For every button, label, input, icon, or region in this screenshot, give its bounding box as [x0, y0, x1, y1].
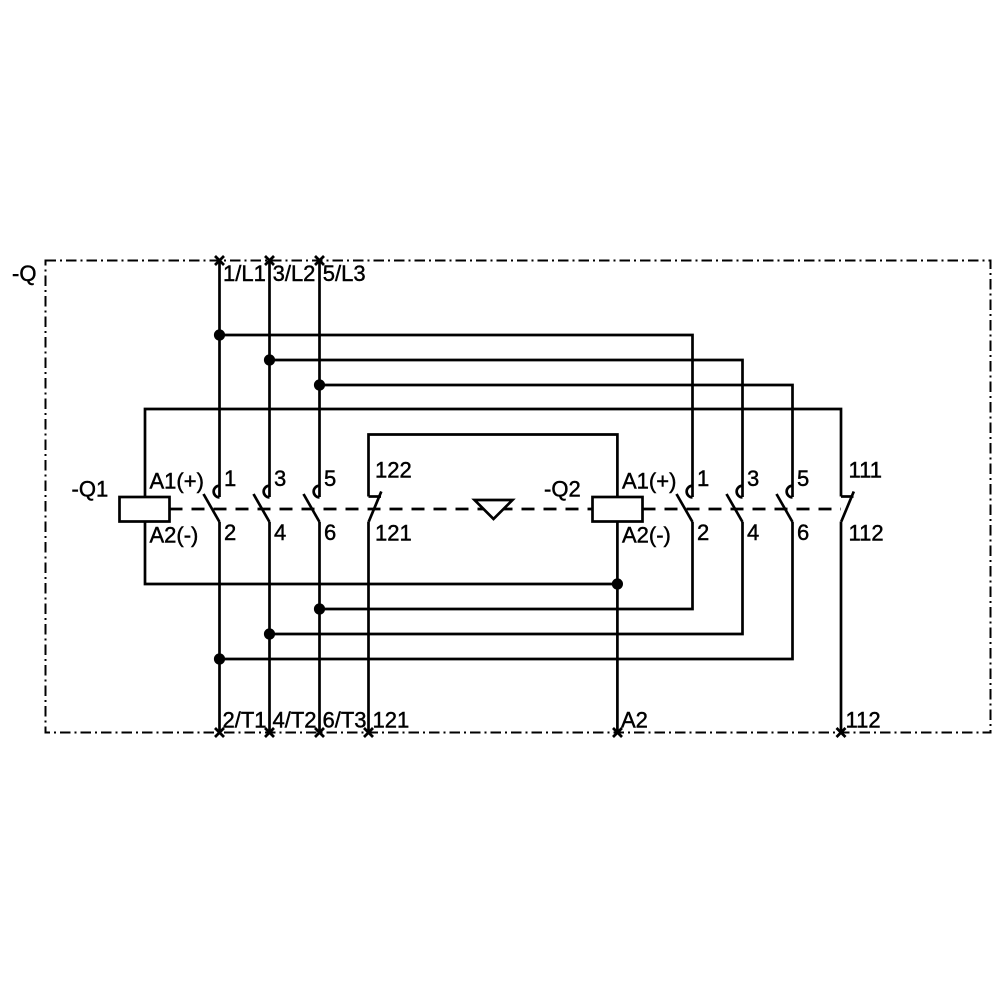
wire L2 drop to Q1 contact 3	[268, 261, 271, 498]
Q1 auxiliary NC interlock contact 122-121	[369, 492, 382, 522]
wire T3 crossover to Q2 contact 2	[320, 522, 693, 609]
svg-text:A2(-): A2(-)	[150, 523, 199, 548]
junction node T3	[314, 603, 325, 614]
wire L1 branch to Q2 contact 1	[220, 335, 693, 497]
contactor coil Q2	[593, 497, 643, 522]
svg-text:5/L3: 5/L3	[323, 261, 366, 286]
junction node A2	[612, 578, 623, 589]
terminal mark 4/T2	[265, 728, 274, 737]
terminal mark 6/T3	[315, 728, 324, 737]
svg-text:4/T2: 4/T2	[273, 708, 317, 733]
wire Q1 contact 6 to terminal 6/T3	[318, 522, 321, 733]
wire Q2 coil A2 to terminal A2	[616, 522, 619, 733]
enclosure boundary -Q (dash-dot frame)	[46, 261, 991, 733]
svg-text:121: 121	[373, 708, 410, 733]
svg-text:6/T3: 6/T3	[323, 708, 367, 733]
mechanical linkage line of Q1	[170, 508, 593, 511]
wire Q1 coil A2 to node A2	[145, 522, 617, 585]
wire T1 crossover to Q2 contact 6	[220, 522, 793, 659]
terminal mark 2/T1	[215, 728, 224, 737]
wire L1 drop to Q1 contact 1	[218, 261, 221, 498]
Q1 main contact 3-4	[254, 486, 270, 522]
wire Q1 contact 4 to terminal 4/T2	[268, 522, 271, 733]
svg-text:A1(+): A1(+)	[622, 469, 676, 494]
svg-text:A2(-): A2(-)	[622, 523, 671, 548]
svg-text:1/L1: 1/L1	[223, 261, 266, 286]
svg-text:112: 112	[849, 521, 884, 546]
svg-text:2: 2	[224, 520, 236, 545]
junction node L1	[214, 329, 225, 340]
svg-text:122: 122	[375, 458, 412, 483]
wire Q1 contact 2 to terminal 2/T1	[218, 522, 221, 733]
svg-text:-Q2: -Q2	[544, 477, 581, 502]
wire L3 branch to Q2 contact 5	[320, 385, 793, 497]
contactor coil Q1	[120, 497, 170, 522]
svg-text:3: 3	[747, 466, 759, 491]
svg-text:4: 4	[747, 520, 759, 545]
Q2 main contact 5-6	[777, 486, 793, 522]
svg-text:2: 2	[697, 520, 709, 545]
terminal mark 1/L1	[215, 256, 224, 265]
terminal mark 5/L3	[315, 256, 324, 265]
wire Q2 coil A1 to interlock contact 122	[369, 435, 618, 498]
svg-text:121: 121	[375, 521, 412, 546]
wire L3 drop to Q1 contact 5	[318, 261, 321, 498]
svg-text:5: 5	[797, 466, 809, 491]
svg-text:5: 5	[324, 466, 336, 491]
svg-text:6: 6	[797, 520, 809, 545]
terminal mark A2	[613, 728, 622, 737]
junction node L3	[314, 379, 325, 390]
Q1 main contact 5-6	[304, 486, 320, 522]
junction node T2	[264, 628, 275, 639]
svg-text:3: 3	[274, 466, 286, 491]
svg-text:A2: A2	[621, 708, 648, 733]
svg-text:3/L2: 3/L2	[273, 261, 316, 286]
svg-text:112: 112	[846, 708, 881, 733]
svg-text:1: 1	[224, 466, 236, 491]
svg-text:6: 6	[324, 520, 336, 545]
mechanical interlock symbol (triangle)	[475, 500, 513, 519]
svg-text:1: 1	[697, 466, 709, 491]
wire interlock 121 to terminal 121	[367, 522, 370, 733]
Q1 main contact 1-2	[204, 486, 220, 522]
junction node T1	[214, 653, 225, 664]
Q2 main contact 3-4	[727, 486, 743, 522]
wire interlock 112 to terminal 112	[840, 522, 843, 733]
wire L2 branch to Q2 contact 3	[270, 360, 743, 497]
terminal mark 112	[837, 728, 846, 737]
svg-text:4: 4	[274, 520, 286, 545]
wire Q1 coil A1 to interlock contact 111	[145, 409, 841, 497]
terminal mark 3/L2	[265, 256, 274, 265]
terminal mark 121	[364, 728, 373, 737]
mechanical linkage line of Q2	[643, 508, 842, 511]
svg-text:-Q1: -Q1	[72, 477, 109, 502]
wire T2 crossover to Q2 contact 4	[270, 522, 743, 634]
svg-text:111: 111	[849, 458, 882, 483]
Q2 main contact 1-2	[677, 486, 693, 522]
svg-text:A1(+): A1(+)	[150, 469, 204, 494]
svg-text:2/T1: 2/T1	[223, 708, 267, 733]
Q2 auxiliary NC interlock contact 111-112	[841, 492, 854, 522]
svg-text:-Q: -Q	[12, 261, 36, 286]
junction node L2	[264, 354, 275, 365]
